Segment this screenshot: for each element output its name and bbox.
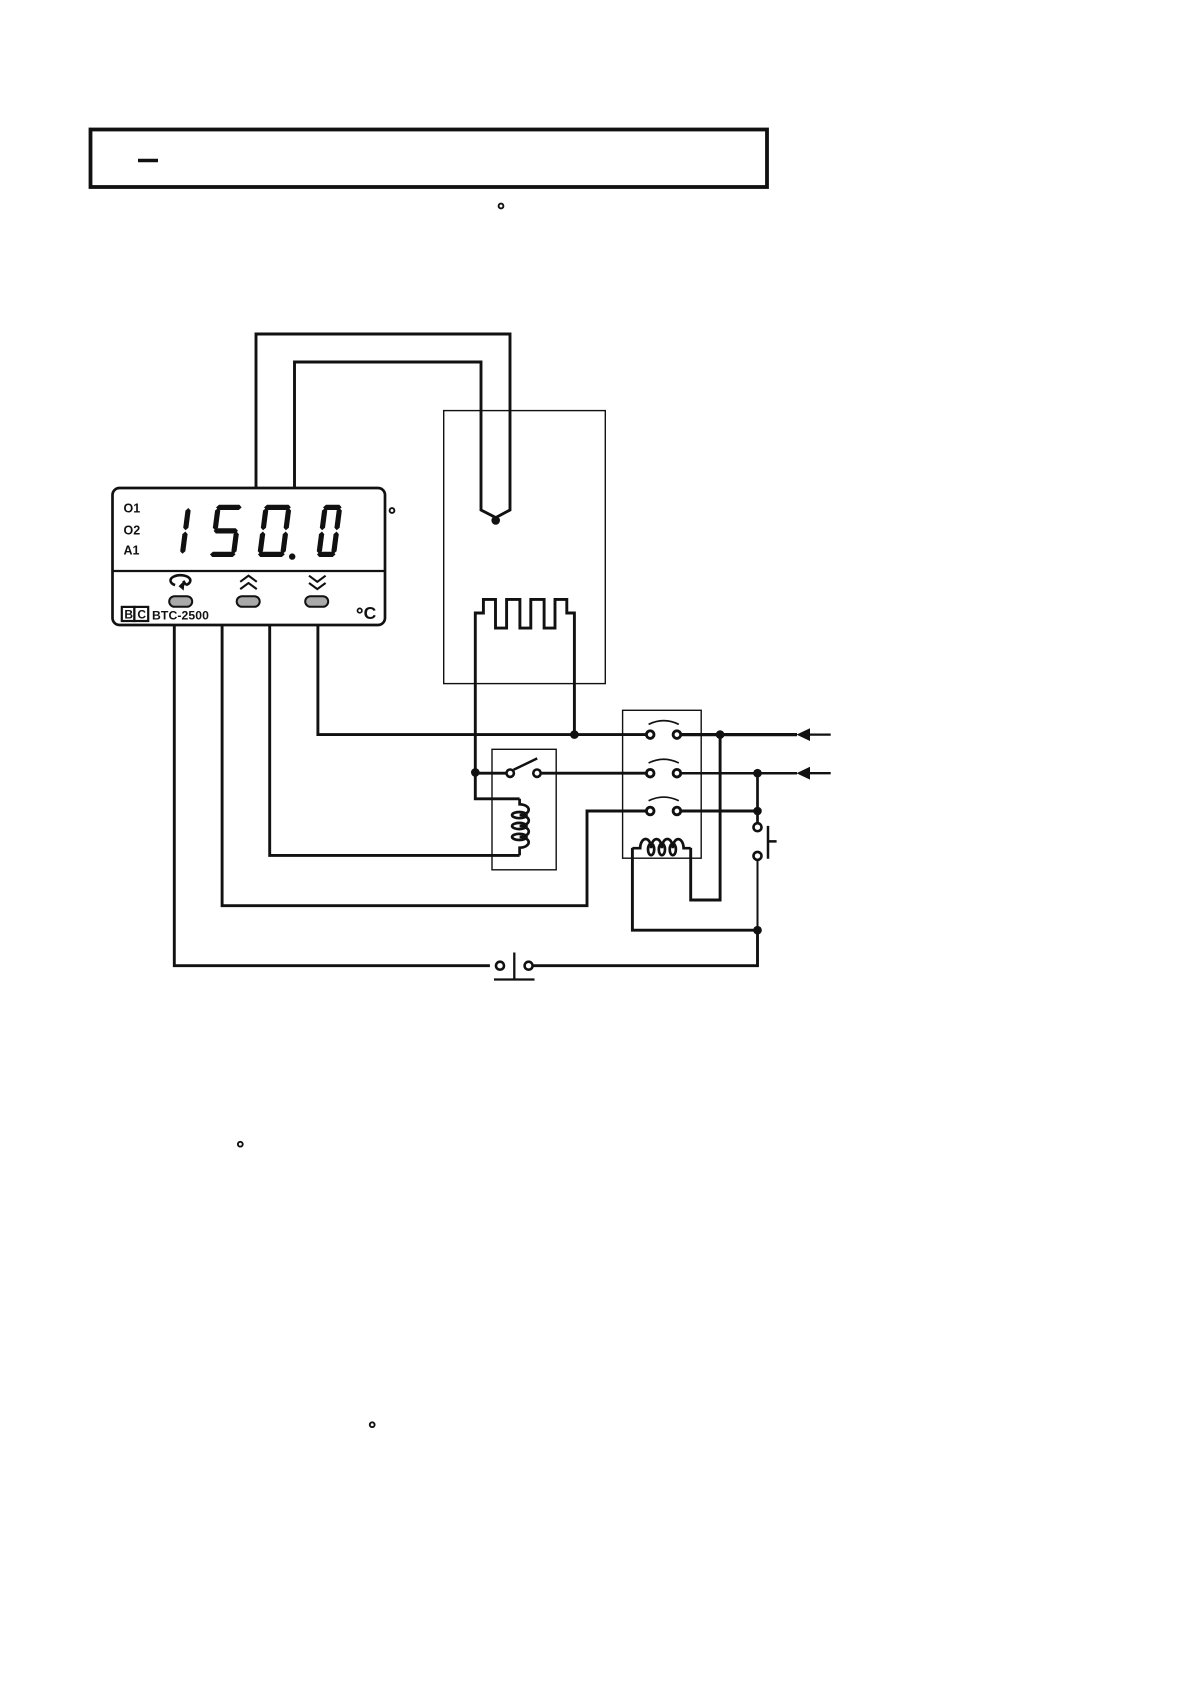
wire pin2 to contactor pole 3	[222, 625, 645, 906]
svg-text:C: C	[137, 608, 146, 622]
logo box B	[122, 607, 135, 621]
up key button	[237, 596, 260, 607]
pushbutton actuator	[768, 826, 777, 859]
relay coil top lead	[475, 772, 519, 798]
digit 5	[209, 505, 243, 557]
svg-text:B: B	[124, 608, 133, 622]
controller BTC-2500 outline	[113, 488, 386, 625]
wire pole1 to L1 arrow	[682, 733, 798, 736]
start switch right terminal	[525, 962, 533, 970]
sensor tip junction	[491, 516, 500, 525]
scroll key symbol	[171, 575, 191, 585]
pole 3 arc	[649, 797, 679, 801]
heater element	[475, 599, 574, 772]
pole 1 arc	[649, 721, 679, 725]
pushbutton top terminal	[754, 823, 762, 831]
scroll key button	[169, 596, 192, 607]
degree mark after title	[499, 204, 504, 209]
relay box	[492, 749, 556, 870]
svg-text:C: C	[364, 603, 377, 623]
wire start switch to node	[534, 930, 758, 966]
down key button	[305, 596, 328, 607]
svg-text:O2: O2	[124, 524, 141, 538]
digit 1	[180, 508, 191, 554]
L2 arrowhead	[797, 767, 811, 780]
wire pin1 to start switch	[174, 625, 490, 966]
wire pin4 to contactor pole 1	[318, 625, 646, 735]
wire pole2 to L2 arrow	[682, 772, 798, 775]
svg-text:A1: A1	[124, 544, 140, 558]
relay contact left terminal	[507, 770, 514, 777]
wire pushbutton to node	[757, 861, 759, 931]
svg-text:BTC-2500: BTC-2500	[152, 608, 209, 622]
svg-text:O1: O1	[124, 502, 141, 516]
L1 arrowhead	[797, 728, 811, 741]
down key symbol	[309, 576, 326, 589]
node pole2 / pushbutton branch	[753, 769, 762, 778]
coil left lead down	[632, 848, 757, 930]
start switch actuator	[494, 953, 535, 980]
contactor box	[623, 710, 702, 858]
pushbutton bottom terminal	[754, 852, 762, 860]
wire pin3 to relay coil	[270, 625, 520, 855]
L1 stub	[806, 733, 831, 735]
contactor pole 1 terminals	[646, 731, 654, 739]
degree mark in note 1	[238, 1142, 243, 1147]
seven-segment reading 150.0	[180, 505, 343, 560]
contactor pole 2 terminals	[646, 769, 654, 777]
branch wire down to pushbutton	[756, 773, 759, 822]
display divider	[113, 570, 386, 572]
pole 2 arc	[649, 759, 679, 763]
relay contact wire left	[475, 772, 505, 775]
relay contact wire right	[542, 772, 646, 775]
relay coil	[512, 799, 529, 856]
contactor pole 3 terminals	[646, 807, 654, 815]
degree mark in note 2	[370, 1422, 375, 1427]
node pole1 / coil return	[716, 730, 725, 739]
node heater-leg / L1 wire	[570, 730, 579, 739]
node coil/pushbutton/start	[753, 926, 762, 935]
unit label on panel	[358, 608, 362, 612]
relay contact blade	[514, 758, 538, 769]
node pole3 / pushbutton	[753, 807, 762, 816]
start switch left terminal	[496, 962, 504, 970]
up key symbol	[240, 576, 257, 589]
L2 stub	[806, 772, 831, 774]
logo box C	[134, 607, 148, 621]
degree mark right of controller	[390, 508, 395, 513]
decimal point	[289, 553, 295, 559]
relay contact right terminal	[533, 770, 540, 777]
contactor coil	[632, 839, 690, 855]
wire from controller top pin to sensor left leg	[295, 362, 496, 518]
title box	[91, 130, 768, 188]
wire pole3 to branch node	[682, 810, 758, 813]
coil right lead to pole1 node	[691, 735, 720, 900]
wire from controller top pin to sensor right leg	[256, 334, 510, 518]
dash in title box	[138, 159, 158, 162]
oven chamber	[444, 411, 606, 684]
digit 0	[257, 505, 292, 557]
node heater-leg / relay wire	[471, 768, 480, 777]
